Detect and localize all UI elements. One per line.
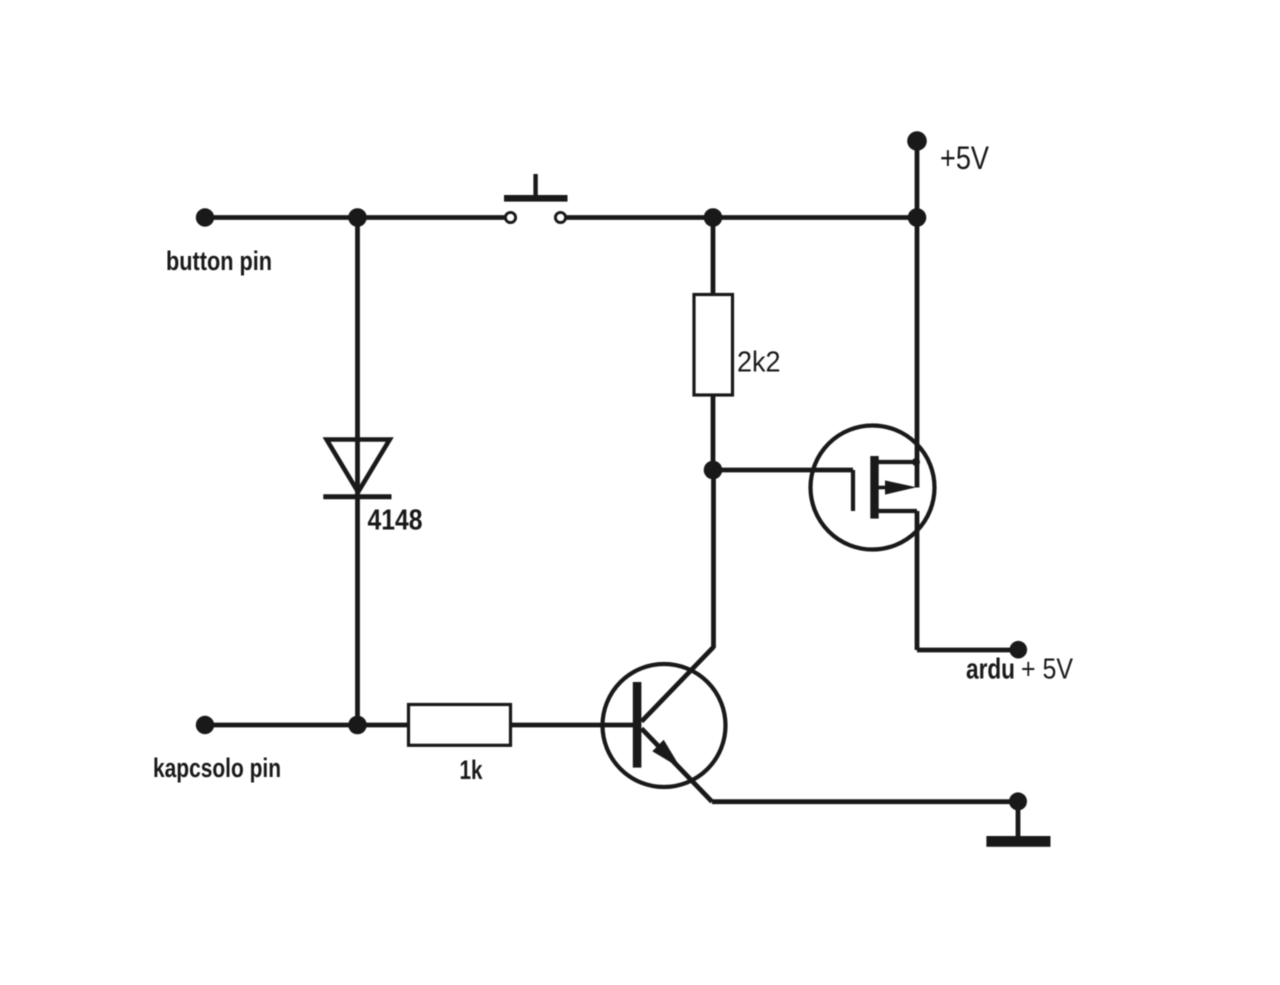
pushbutton S1 plunger stem	[533, 174, 537, 195]
wire collector diagonal	[642, 647, 714, 722]
wire 2k2 top vertical	[711, 218, 716, 295]
diode D1 cathode bar	[323, 494, 391, 499]
transistor Q2 drain lead	[874, 460, 917, 464]
wire kapcsolo pin horizontal	[205, 723, 409, 728]
transistor Q2 drain junction dot	[912, 458, 920, 466]
wire emitter run horizontal	[712, 799, 1013, 804]
wire diode branch vertical	[355, 218, 360, 726]
transistor Q2 gate electrode	[851, 470, 855, 511]
ground bar	[986, 836, 1050, 847]
wire top-left horizontal (button pin to switch)	[205, 215, 506, 220]
svg-text:+5V: +5V	[940, 140, 990, 176]
wire 2k2 bottom vertical	[711, 395, 716, 470]
wire top-right horizontal (switch to +5V rail)	[565, 215, 917, 220]
junction gate node	[704, 461, 723, 480]
transistor Q2 source lead	[874, 509, 917, 513]
resistor 1k body	[409, 705, 511, 746]
node kapcsolo pin terminal	[196, 716, 214, 734]
wire gate lead	[713, 468, 853, 473]
wire ground stub	[1016, 801, 1021, 837]
svg-text:+ 5V: + 5V	[1021, 653, 1074, 685]
junction +5V rail	[908, 208, 927, 227]
wire collector vertical	[711, 470, 716, 648]
transistor Q1 emitter arrow	[652, 740, 681, 769]
transistor Q2 body arrow	[885, 480, 917, 494]
pushbutton S1 contacts	[505, 212, 565, 222]
node +5V terminal	[907, 131, 927, 151]
transistor Q2 MOSFET circle	[811, 426, 935, 550]
svg-text:1k: 1k	[460, 755, 484, 785]
svg-text:ardu: ardu	[966, 653, 1015, 685]
junction kapcsolo branch	[348, 716, 367, 735]
diode D1 4148 anode triangle	[327, 440, 390, 493]
svg-text:2k2: 2k2	[737, 346, 781, 378]
resistor 2k2 body	[694, 295, 733, 396]
node ground terminal	[1009, 792, 1027, 810]
junction diode branch top	[348, 208, 367, 227]
pushbutton S1 actuator bar	[504, 195, 568, 202]
wire source vertical	[915, 511, 920, 650]
transistor Q1 base bar	[633, 682, 642, 768]
transistor Q2 body lead stub	[874, 486, 888, 490]
junction 2k2 top	[704, 208, 723, 227]
transistor Q2 channel bar	[870, 456, 878, 519]
transistor Q1 BJT circle	[603, 664, 726, 787]
wire +5V rail vertical	[915, 141, 920, 488]
svg-text:4148: 4148	[368, 505, 423, 537]
wire ardu horizontal	[917, 648, 1016, 653]
svg-text:button pin: button pin	[166, 246, 272, 276]
wire emitter diagonal	[642, 729, 713, 802]
svg-text:kapcsolo pin: kapcsolo pin	[153, 753, 281, 783]
node ardu +5V terminal	[1010, 641, 1028, 659]
wire base lead	[511, 723, 634, 728]
node button pin terminal	[196, 208, 214, 226]
